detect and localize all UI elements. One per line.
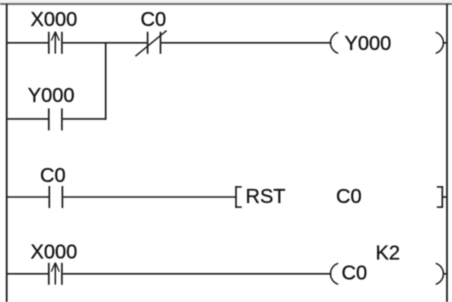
right power rail (446, 4, 448, 302)
rung 2 wire: C0 to RST block (63, 196, 236, 198)
rung 3 wire: X000 to coil C0 (63, 273, 332, 275)
branch vertical wire (junction to rung 1) (105, 43, 107, 120)
svg-text:K2: K2 (376, 243, 400, 265)
contact C0 (normally open, rung 2) (49, 186, 62, 208)
contact X000 (rising edge) (49, 32, 62, 54)
branch wire: left rail to contact Y000 (7, 118, 48, 120)
svg-text:C0: C0 (336, 186, 362, 208)
RST instruction block left bracket (235, 186, 242, 208)
svg-text:C0: C0 (40, 165, 66, 187)
rung 1 wire: X000 to contact C0 (63, 42, 147, 44)
top border dark line (0, 3, 452, 5)
rung 3 wire: left rail to contact X000 (7, 273, 48, 275)
contact X000 (rising edge, rung 3) (49, 263, 62, 285)
svg-text:C0: C0 (141, 9, 167, 31)
svg-text:Y000: Y000 (345, 33, 392, 55)
rung 1 wire: C0 to coil Y000 (161, 42, 331, 44)
NC contact C0 (135, 31, 166, 57)
rung 2 wire: left rail to contact C0 (7, 196, 49, 198)
svg-text:RST: RST (246, 186, 286, 208)
coil Y000 (330, 32, 447, 53)
branch wire: Y000 to junction (63, 118, 107, 120)
svg-text:X000: X000 (31, 241, 78, 263)
rung 1 wire: left rail to contact X000 (7, 42, 48, 44)
svg-text:Y000: Y000 (28, 85, 75, 107)
coil C0 (counter) (330, 263, 447, 284)
top border light band (0, 0, 452, 3)
left power rail (6, 4, 8, 302)
RST instruction block right bracket (437, 186, 447, 208)
svg-text:C0: C0 (342, 263, 368, 285)
contact Y000 (normally open) (49, 108, 62, 130)
svg-text:X000: X000 (31, 9, 78, 31)
